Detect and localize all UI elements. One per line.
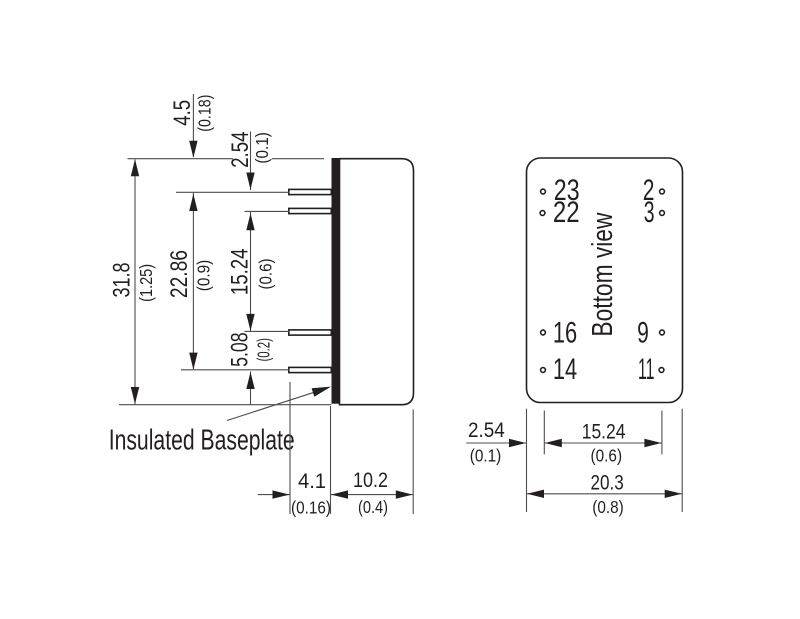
- svg-text:11: 11: [638, 353, 655, 386]
- dimension 31.8 top arrow: [131, 159, 139, 176]
- dimension 10.2 right arrow: [396, 490, 413, 498]
- pin 22 circle: [540, 211, 545, 216]
- svg-text:(0.1): (0.1): [252, 132, 272, 164]
- dimension 4.1 arrow: [273, 490, 290, 498]
- svg-text:Bottom view: Bottom view: [587, 212, 619, 337]
- svg-text:(0.9): (0.9): [194, 260, 214, 292]
- pin 3 circle: [660, 211, 665, 216]
- svg-text:22.86: 22.86: [166, 250, 193, 298]
- top extension line: [128, 158, 325, 160]
- bottom view body outline: [527, 158, 683, 403]
- insulated baseplate bar: [332, 158, 340, 404]
- dimension 2.54 line (bottom view): [466, 442, 526, 444]
- svg-text:(1.25): (1.25): [136, 264, 156, 302]
- dimension 15.24 bottom arrow (side): [246, 314, 254, 331]
- svg-text:(0.6): (0.6): [591, 446, 623, 466]
- insulated baseplate leader arrow: [312, 387, 331, 397]
- svg-text:(0.18): (0.18): [195, 95, 215, 132]
- svg-text:16: 16: [553, 317, 577, 350]
- pin2 extension line: [245, 210, 290, 212]
- svg-text:(0.16): (0.16): [291, 498, 331, 518]
- pin1 extension line: [176, 191, 289, 193]
- dimension 20.3 left arrow: [527, 490, 544, 498]
- svg-text:2.54: 2.54: [468, 419, 505, 442]
- svg-text:(0.8): (0.8): [592, 497, 624, 517]
- dimension 4.5 line: [192, 94, 194, 157]
- dimension 2.54 arrow (bottom view): [509, 439, 526, 447]
- dimension 15.24 line (bottom view): [544, 442, 662, 444]
- pin 14 circle: [541, 368, 546, 373]
- dimension 15.24 line (side): [250, 212, 252, 331]
- dimension 5.08 arrow: [246, 372, 254, 389]
- bottom view left pin column extension line: [543, 411, 545, 455]
- body right edge extension line below body: [412, 410, 414, 515]
- svg-text:(0.4): (0.4): [358, 497, 388, 517]
- baseplate extension line below body: [330, 406, 332, 514]
- dimension 15.24 right arrow (bottom view): [644, 439, 661, 447]
- svg-text:15.24: 15.24: [226, 248, 253, 295]
- pin row 1 (side view): [289, 189, 332, 194]
- dimension 4.5 arrow: [189, 141, 197, 158]
- dimension 20.3 right arrow: [665, 490, 682, 498]
- svg-text:4.5: 4.5: [169, 100, 196, 126]
- dimension 31.8 bottom arrow: [131, 387, 139, 404]
- bottom view left edge extension line: [526, 409, 528, 512]
- svg-text:2.54: 2.54: [227, 132, 254, 168]
- dimension 15.24 left arrow (bottom view): [545, 439, 562, 447]
- dimension 4.1 line: [258, 494, 290, 496]
- dimension 2.54 line (side): [250, 132, 252, 191]
- pin-length extension line below pin tips: [289, 382, 291, 514]
- svg-text:(0.1): (0.1): [470, 446, 502, 466]
- pin row 3 (side view): [289, 330, 332, 335]
- dimension 31.8 line: [134, 160, 136, 405]
- svg-text:Insulated Baseplate: Insulated Baseplate: [109, 425, 295, 457]
- pin3 extension line: [245, 330, 290, 332]
- dimension 22.86 line: [192, 193, 194, 370]
- dimension 15.24 top arrow (side): [246, 213, 254, 230]
- svg-text:31.8: 31.8: [109, 263, 136, 298]
- bottom view right pin column extension line: [661, 411, 663, 455]
- dimension 20.3 line: [527, 493, 683, 495]
- dimension 2.54 arrow (side): [246, 173, 254, 190]
- dimension 5.08 line: [250, 372, 252, 406]
- svg-text:(0.6): (0.6): [255, 259, 275, 290]
- bottom extension line: [119, 404, 331, 406]
- svg-text:5.08: 5.08: [227, 332, 254, 367]
- dimension 10.2 line: [331, 494, 414, 496]
- bottom view right edge extension line: [681, 409, 683, 512]
- svg-text:14: 14: [553, 353, 577, 386]
- dimension 22.86 top arrow: [189, 194, 197, 211]
- pin4 extension line: [181, 369, 289, 371]
- svg-text:10.2: 10.2: [353, 469, 388, 492]
- svg-text:4.1: 4.1: [298, 470, 326, 493]
- pin row 2 (side view): [289, 208, 332, 213]
- pin 23 circle: [541, 189, 546, 194]
- insulated baseplate leader line: [227, 392, 316, 421]
- svg-text:22: 22: [553, 196, 580, 229]
- svg-text:3: 3: [644, 196, 655, 229]
- svg-text:9: 9: [637, 317, 649, 350]
- pin 11 circle: [659, 368, 664, 373]
- svg-text:20.3: 20.3: [590, 471, 623, 494]
- pin row 4 (side view): [289, 367, 332, 372]
- svg-text:(0.2): (0.2): [253, 338, 273, 362]
- pin 2 circle: [660, 189, 665, 194]
- side view: module body outline: [340, 159, 414, 405]
- dimension 10.2 left arrow: [331, 490, 348, 498]
- svg-text:15.24: 15.24: [582, 420, 626, 443]
- pin 9 circle: [660, 330, 665, 335]
- pin 16 circle: [541, 330, 546, 335]
- dimension 22.86 bottom arrow: [189, 353, 197, 370]
